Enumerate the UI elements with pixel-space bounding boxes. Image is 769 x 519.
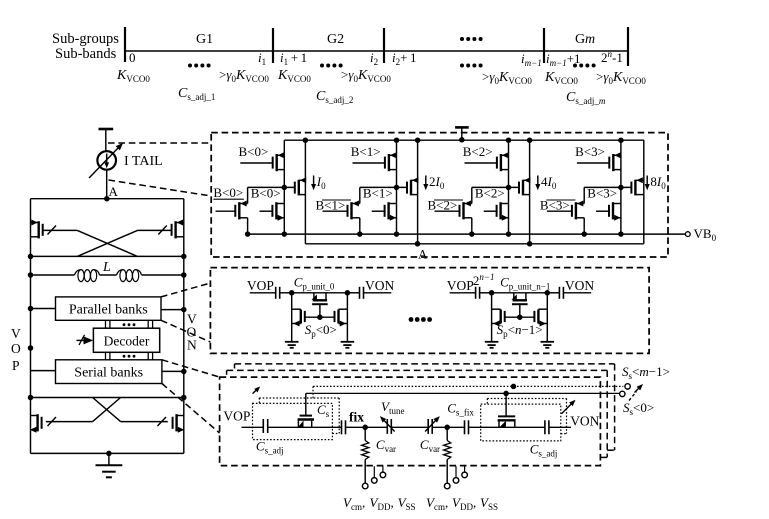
wire to ground: [108, 453, 110, 465]
label Vtune: [381, 399, 404, 416]
label Gm: [575, 32, 595, 47]
block Serial banks: [56, 360, 162, 384]
wire mirror gate lead cell2: [472, 186, 519, 188]
label KVCO0 band4: [544, 70, 578, 86]
dashed connector ITAIL to DAC box input: [109, 180, 212, 196]
transistor PMOS switch B2: [497, 152, 509, 171]
band diagram tick 1: [124, 27, 126, 62]
arrow Ss<m-1>: [635, 384, 644, 393]
band diagram tick 4: [543, 28, 545, 63]
label 2I0: [429, 174, 445, 191]
inductor L right half: [117, 270, 142, 282]
ground right cell0: [341, 342, 355, 348]
junction bias line cell0 left: [245, 231, 251, 237]
transistor NMOS switch-bar cell0: [235, 201, 247, 220]
wire NMOS1 source down cell0: [247, 218, 249, 234]
svg-text:B<0>: B<0>: [213, 185, 243, 200]
junction upper drain right: [181, 254, 187, 260]
label VDD left: [370, 495, 394, 512]
junction rail switch cell3: [618, 137, 624, 143]
svg-text:VOP: VOP: [223, 409, 250, 424]
label i1: [258, 50, 266, 67]
transistor switch right cell1: [534, 309, 547, 326]
wire NMOS1 drain up cell3: [583, 187, 585, 203]
label VOP cell1: [447, 278, 474, 293]
svg-text:G1: G1: [196, 32, 213, 47]
bus decoder to serial: [106, 352, 153, 360]
terminal Vcm right: [444, 483, 450, 489]
label VOP vertical: [11, 326, 21, 373]
junction left cell1: [489, 290, 495, 296]
wire inductor line right: [142, 274, 184, 276]
svg-text:VON: VON: [570, 414, 599, 429]
band diagram axis: [125, 50, 628, 52]
label B1 switch gate: [351, 144, 381, 159]
junction upper drain left: [28, 254, 34, 260]
gate lead MOS-cap cell1: [519, 304, 521, 317]
label fix: [349, 410, 364, 425]
wire between varactors: [391, 426, 428, 428]
svg-text:VON: VON: [365, 278, 394, 293]
gate lead upper-right with slash: [137, 226, 171, 235]
gate lead switch cell1: [353, 162, 385, 164]
transistor NMOS switch cell2: [497, 202, 509, 221]
wire Sp line cell0: [305, 316, 335, 318]
label B0 switch gate: [239, 144, 269, 159]
dashed connector serial box lower: [162, 384, 220, 434]
svg-text:B<1>: B<1>: [363, 186, 393, 201]
terminal stub VSS left: [380, 466, 386, 478]
label Ss<0>: [623, 400, 654, 417]
wire cap to MOS serial left: [268, 426, 342, 428]
wire right rail cell0: [346, 293, 348, 342]
wire VOP lead cell1: [450, 292, 476, 294]
dashed box serial bank front: [220, 377, 601, 466]
wire switch vertical cell1: [396, 140, 398, 234]
ground left cell0: [285, 342, 299, 348]
current arrow cell2: [535, 176, 540, 191]
VDD supply bar DAC: [455, 126, 469, 129]
wire mirror vertical cell2: [529, 140, 531, 244]
transistor upper-left PMOS: [31, 220, 43, 239]
dashed connector parallel box upper: [161, 283, 210, 297]
wire VON lead cell1: [563, 292, 591, 294]
junction rail mirror cell2: [527, 137, 533, 143]
bus dots upper: [123, 323, 136, 326]
wire inductor line left: [31, 274, 75, 276]
wire parallel banks left: [31, 308, 56, 310]
junction rail mirror cell1: [415, 137, 421, 143]
junction mirror gate cell0: [282, 185, 288, 191]
junction Ss<m-1>: [511, 384, 517, 390]
junction right cell1: [545, 290, 551, 296]
label Vcm left: [343, 495, 365, 512]
transistor switch right cell0: [335, 309, 348, 326]
label VON cell0: [365, 278, 394, 293]
capacitor VOP coupling cell1: [476, 287, 480, 299]
svg-text:B<2>: B<2>: [475, 186, 505, 201]
ellipsis dots G1: [188, 64, 211, 68]
gate lead Cs right: [505, 393, 507, 415]
capacitor VON coupling cell0: [360, 287, 364, 299]
wire DAC VDD rail: [284, 139, 644, 141]
wire node to VON cap cell0: [347, 292, 359, 294]
I TAIL variable arrow: [89, 143, 123, 178]
band diagram tick 5: [627, 27, 629, 66]
terminal VB0: [685, 232, 690, 237]
transistor MOS-cap cell0: [312, 293, 328, 304]
wire NMOS1 drain up cell2: [471, 187, 473, 203]
svg-text:0: 0: [129, 50, 136, 65]
svg-text:V: V: [11, 326, 21, 341]
cross-coupling wire lower X: [93, 398, 121, 422]
resistor bias left: [362, 427, 369, 483]
label VB0: [694, 226, 717, 243]
wire VON lead cell0: [364, 292, 392, 294]
wire cell top cell0: [292, 292, 348, 294]
wire cap to node cell0: [280, 292, 292, 294]
gate lead switch cell0: [240, 162, 272, 164]
label I TAIL: [124, 154, 163, 169]
ellipsis dots Gm: [573, 64, 596, 68]
ellipsis dots mid below axis: [460, 64, 483, 68]
junction serial right: [181, 369, 187, 375]
svg-text:Serial banks: Serial banks: [74, 366, 143, 381]
junction bias line cell2 left: [469, 231, 475, 237]
junction bias line cell3 left: [581, 231, 587, 237]
label Cs_adj_2: [316, 89, 353, 105]
transistor MOS Cs left: [298, 416, 314, 428]
svg-text:Sub-groups: Sub-groups: [52, 31, 119, 47]
gate lead NMOS1 cell2: [435, 210, 459, 212]
wire serial right cell: [469, 426, 545, 428]
ground symbol main: [96, 465, 123, 477]
label Cs_adj left: [256, 439, 284, 456]
wire mirror gate lead cell3: [584, 186, 631, 188]
wire switch vertical cell3: [620, 140, 622, 234]
junction lower right: [181, 395, 187, 401]
wire VDD to I TAIL: [105, 129, 107, 152]
label >g0KVCO0 band1: [219, 67, 269, 84]
transistor NMOS switch-bar cell3: [572, 201, 584, 220]
transistor lower-right NMOS: [173, 414, 185, 433]
junction parallel left: [28, 306, 34, 312]
transistor NMOS switch cell1: [385, 202, 397, 221]
label >g0KVCO0 band3: [482, 69, 532, 86]
dashed connector ITAIL to DAC box top: [108, 142, 211, 144]
gate lead NMOS1 cell3: [547, 210, 571, 212]
label 8I0: [650, 174, 666, 191]
dashed box parallel bank cells: [210, 268, 649, 354]
capacitor Cs_adj series left: [263, 419, 267, 433]
arrow adjust left: [253, 386, 261, 393]
label Sub-groups: [52, 31, 119, 47]
junction mirror gate cell1: [394, 185, 400, 191]
block Decoder: [93, 328, 159, 352]
label G1: [196, 32, 213, 47]
label Sub-bands: [55, 46, 117, 62]
wire NMOS1 drain up cell1: [359, 187, 361, 203]
wire Sp line cell1: [505, 316, 535, 318]
wire left rail cell1: [491, 293, 493, 342]
svg-text:VON: VON: [565, 278, 594, 293]
junction lower left: [28, 395, 34, 401]
transistor switch left cell1: [492, 309, 505, 326]
svg-text:L: L: [102, 260, 111, 275]
label B2 right: [475, 186, 505, 201]
wire tune node: [432, 426, 464, 428]
wire serial banks left: [31, 370, 56, 372]
wire Ss<m-1> dotted line: [313, 386, 623, 399]
label >g0KVCO0 band2: [341, 67, 391, 84]
label KVCO0 band1: [116, 68, 150, 84]
label VSS left: [398, 495, 416, 512]
junction mirror gate cell3: [618, 185, 624, 191]
capacitor Cs_fix: [465, 420, 469, 434]
gate lead NMOS1 cell0: [216, 210, 235, 212]
label 2^n-1: [601, 49, 623, 65]
ground right cell1: [541, 342, 555, 348]
wire mirror vertical cell3: [643, 140, 645, 244]
wire mirror gate lead cell1: [360, 186, 407, 188]
junction Ss<0>: [503, 391, 509, 397]
junction mirror gate cell2: [506, 185, 512, 191]
label 0: [129, 50, 136, 65]
dashed connector serial box upper: [162, 360, 220, 377]
junction right cell0: [345, 290, 351, 296]
label Ss<m-1>: [622, 364, 670, 381]
transistor lower-left NMOS: [30, 414, 42, 433]
gate lead switch cell3: [577, 162, 609, 164]
wire DAC bias line VB0: [248, 233, 686, 235]
wire upper drain line: [31, 255, 184, 257]
VDD supply bar: [99, 128, 114, 131]
resistor bias right: [444, 427, 451, 483]
svg-text:Ss<0>: Ss<0>: [623, 400, 654, 417]
label Cs_adj_1: [178, 86, 215, 102]
block Parallel banks: [56, 297, 162, 320]
cross-coupling wire upper X: [77, 230, 137, 256]
gate lead upper-left with slash: [43, 226, 78, 235]
terminal stub VDD left: [372, 466, 378, 483]
wire lower gate line: [31, 397, 184, 399]
transistor upper-right PMOS: [172, 220, 184, 239]
label im-1: [521, 51, 542, 68]
gate lead NMOS1 cell1: [323, 210, 347, 212]
bus parallel to decoder: [106, 320, 153, 328]
varactor Cvar right: [425, 416, 440, 434]
inductor L left half: [75, 270, 100, 282]
transistor PMOS switch B1: [385, 152, 397, 171]
wire NMOS1 source down cell1: [359, 218, 361, 234]
dotted box Cs_adj left: [253, 403, 333, 439]
label i1+1: [280, 50, 307, 67]
ellipsis dots mid above axis: [460, 37, 483, 41]
wire mirror gate lead cell0: [248, 186, 295, 188]
transistor PMOS mirror I0: [295, 177, 306, 195]
transistor NMOS switch-bar cell1: [348, 201, 360, 220]
wire VOP lead cell0: [250, 292, 276, 294]
label G2: [327, 32, 344, 47]
label node A: [109, 184, 119, 199]
wire mirror vertical cell1: [417, 140, 419, 244]
junction bias line cell3 right: [618, 231, 624, 237]
label VON vertical: [187, 312, 198, 353]
junction rail mirror cell0: [303, 137, 309, 143]
wire DAC node A line: [305, 243, 643, 245]
junction bias line cell1 right: [394, 231, 400, 237]
svg-text:A: A: [418, 247, 428, 262]
capacitor VON coupling cell1: [559, 287, 563, 299]
label B3 switch gate: [575, 144, 605, 159]
label 2^n-1 weight: [473, 272, 495, 288]
label Sp cell1: [497, 322, 543, 339]
svg-text:m: m: [585, 32, 595, 47]
label VOP cell0: [247, 278, 274, 293]
label VON cell1: [565, 278, 594, 293]
capacitor VOP coupling cell0: [276, 287, 280, 299]
current source I TAIL circle: [97, 151, 116, 170]
label Cp_unit cell1: [500, 275, 550, 292]
svg-text:VOP: VOP: [447, 278, 474, 293]
label Vcm right: [426, 495, 448, 512]
transistor MOS-cap cell1: [511, 293, 527, 304]
transistor PMOS mirror 2I0: [407, 177, 418, 195]
svg-text:A: A: [109, 184, 119, 199]
wire switch vertical cell2: [508, 140, 510, 234]
junction Sp cell1: [517, 314, 523, 320]
label VSS right: [480, 495, 498, 512]
transistor PMOS mirror 8I0: [631, 177, 643, 195]
capacitor fix coupling: [342, 420, 346, 434]
terminal Ss<m-1>: [625, 384, 630, 389]
transistor MOS Cs right: [498, 416, 516, 427]
label i2: [370, 50, 378, 67]
wire right rail: [183, 199, 185, 454]
arrow adjust right: [562, 400, 576, 414]
wire fix node: [346, 426, 388, 428]
wire Ss<0> line: [306, 392, 620, 394]
gate lead NMOS2 cell2: [484, 210, 496, 212]
label I0: [316, 174, 326, 191]
transistor NMOS switch-bar cell2: [460, 201, 472, 220]
label B1bar left: [316, 198, 352, 213]
current arrow cell1: [423, 176, 428, 191]
wire NMOS1 source down cell2: [471, 218, 473, 234]
gate lead lower-right with slash: [121, 417, 168, 426]
wire right rail cell1: [546, 293, 548, 342]
junction inductor right: [181, 272, 187, 278]
svg-text:Decoder: Decoder: [104, 334, 150, 349]
junction tune node: [444, 425, 450, 431]
band diagram tick 3: [383, 28, 385, 63]
junction VOP: [28, 345, 34, 351]
svg-text:B<0>: B<0>: [251, 186, 281, 201]
dotted box Cs_adj right offset: [487, 399, 566, 434]
label B2 switch gate: [463, 144, 493, 159]
wire NMOS1 source down cell3: [583, 218, 585, 234]
current arrow cell0: [311, 176, 316, 191]
label Cs_adj_m: [566, 90, 606, 106]
wire left rail: [30, 199, 32, 454]
band diagram tick 2: [272, 28, 274, 63]
junction A line cell1: [415, 241, 421, 247]
gate lead NMOS2 cell0: [260, 210, 272, 212]
junction fix node: [362, 425, 368, 431]
ground left cell1: [485, 342, 499, 348]
svg-text:Parallel banks: Parallel banks: [69, 303, 148, 318]
wire serial banks right: [162, 370, 184, 372]
wire inductor mid: [100, 274, 117, 276]
label Cvar right: [420, 437, 440, 454]
transistor PMOS mirror 4I0: [519, 177, 530, 195]
gate lead NMOS2 cell1: [372, 210, 384, 212]
varactor Cvar left: [380, 416, 395, 434]
svg-text:I TAIL: I TAIL: [124, 154, 163, 169]
label B2bar left: [428, 198, 464, 213]
transistor NMOS switch cell0: [272, 202, 284, 221]
terminal Vcm left: [362, 483, 368, 489]
ellipsis between cells: [409, 317, 432, 322]
junction Sp cell0: [317, 314, 323, 320]
label Cs left: [317, 402, 330, 419]
svg-text:B<3>: B<3>: [575, 144, 605, 159]
label 4I0: [541, 174, 557, 191]
decoder clock arrow with slash: [77, 335, 94, 345]
gate lead NMOS2 cell3: [596, 210, 608, 212]
label im-1+1: [546, 51, 581, 68]
transistor NMOS switch cell3: [609, 202, 621, 221]
junction bias line cell0 right: [282, 231, 288, 237]
ellipsis slash between Ss terminals: [629, 392, 637, 401]
gate lead switch cell2: [465, 162, 497, 164]
junction left cell0: [289, 290, 295, 296]
wire cell top cell1: [492, 292, 548, 294]
junction bottom center: [106, 451, 112, 457]
wire VON serial: [549, 426, 571, 428]
wire bottom rail: [31, 452, 184, 454]
gate lead lower-left with slash: [46, 417, 93, 426]
label B0bar left: [213, 185, 243, 200]
label KVCO0 band2: [277, 68, 311, 84]
label Cs_fix: [447, 401, 474, 418]
svg-text:2n-1: 2n-1: [601, 49, 623, 65]
gate lead MOS-cap cell0: [319, 304, 321, 317]
svg-text:B<1>: B<1>: [351, 144, 381, 159]
label VON serial: [570, 414, 599, 429]
label Sp cell0: [305, 322, 337, 339]
label node A DAC: [418, 247, 428, 262]
label Cvar left: [376, 437, 396, 454]
label VDD right: [452, 495, 476, 512]
wire parallel banks right: [161, 309, 184, 311]
wire switch vertical cell0: [283, 140, 285, 234]
svg-text:P: P: [12, 358, 20, 373]
ellipsis dots G2: [320, 64, 343, 68]
dotted box Cs_adj left offset: [259, 398, 339, 434]
terminal stub VSS right: [462, 466, 468, 478]
label i2+1: [392, 50, 417, 67]
terminal Ss<0>: [620, 391, 625, 396]
junction rail switch cell1: [394, 137, 400, 143]
terminal stub VDD right: [453, 466, 459, 483]
wire VOP to cap serial: [242, 426, 264, 428]
label B3bar left: [540, 198, 576, 213]
junction rail switch cell2: [506, 137, 512, 143]
svg-text:G: G: [575, 32, 585, 47]
label B3 right: [587, 186, 617, 201]
label VOP serial: [223, 409, 250, 424]
